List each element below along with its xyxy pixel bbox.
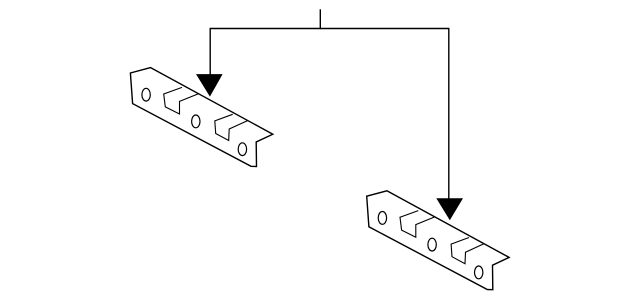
bracket 1 (upper left) <box>130 68 272 167</box>
bracket 2 hole 3 <box>475 266 483 279</box>
bracket 1 hole 1 <box>142 88 150 101</box>
bracket 2 hole 1 <box>378 212 386 225</box>
bracket 2 clip tab 2 <box>451 238 484 264</box>
bracket 2 outline <box>367 191 509 290</box>
bracket 1 outline <box>130 68 272 167</box>
leader tick (top center stub) <box>319 9 321 29</box>
arrowhead right <box>436 198 463 220</box>
arrowhead left <box>196 74 223 97</box>
bracket 2 (lower right) <box>367 191 509 290</box>
bracket 1 clip tab 1 <box>164 87 199 114</box>
bracket 1 hole 3 <box>238 143 246 156</box>
bracket 2 clip tab 1 <box>400 211 435 238</box>
bracket 1 clip tab 2 <box>215 114 248 140</box>
bracket 1 hole 2 <box>192 115 200 128</box>
bracket 2 hole 2 <box>428 238 436 251</box>
leader right vertical line <box>448 29 450 203</box>
leader horizontal line <box>210 28 450 30</box>
leader left vertical line <box>209 29 211 79</box>
